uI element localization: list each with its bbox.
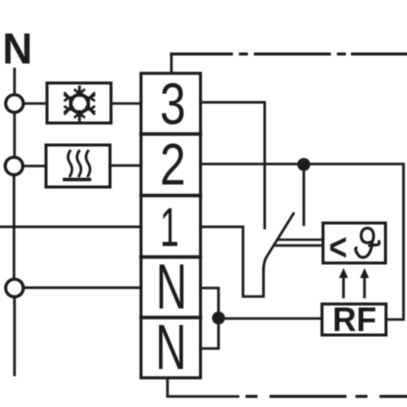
thermostat sensor box U1 <box>323 223 386 263</box>
junction dot on terminal 2 wire <box>297 158 310 171</box>
cooling load box <box>47 83 111 123</box>
terminal node circle (to heating contactor) <box>5 157 23 175</box>
wire: neutral rail vertical segment below N <box>13 69 16 94</box>
switch lever <box>264 214 294 270</box>
svg-text:1: 1 <box>160 197 179 258</box>
terminal cell 3 <box>141 72 201 137</box>
wire: terminal 3 up to enclosure boundary <box>170 54 173 73</box>
mechanical linkage (double line) from lever to thermostat <box>279 238 324 240</box>
svg-text:RF: RF <box>333 302 377 340</box>
heating (heat waves) symbol <box>65 151 91 180</box>
svg-text:N: N <box>3 24 33 73</box>
wire: neutral rail bottom segment <box>13 297 16 375</box>
junction dot on N jumper <box>212 312 225 325</box>
enclosure boundary (top, dash-dot) <box>171 53 407 56</box>
heating load box <box>46 145 110 187</box>
wire: terminal 1 to switch pivot <box>201 227 264 297</box>
wire: heating box to terminal 2 <box>110 164 141 167</box>
terminal cell 2 <box>141 133 201 198</box>
wire: circle 1 to cooling load box <box>24 102 48 105</box>
wire: N terminals jumper bracket <box>201 288 219 349</box>
wire: N jumper to RF module <box>219 317 323 320</box>
cooling (snowflake) symbol <box>65 87 94 120</box>
terminal cell N (first) <box>141 251 201 323</box>
terminal block outline <box>141 73 201 378</box>
svg-text:N: N <box>156 311 187 383</box>
enclosure boundary (bottom, dash-dot) <box>247 395 407 398</box>
wire: terminal 3 to switch contact A <box>201 102 265 228</box>
RF receiver module box <box>322 304 386 335</box>
wire: neutral rail between circle 2 and circle 3 <box>13 175 16 279</box>
wire: terminal 2 to junction and right rail <box>201 164 404 320</box>
svg-text:2: 2 <box>160 133 186 198</box>
wire: cooling box to terminal 3 <box>111 102 141 105</box>
signal arrow (left) from RF to thermostat <box>339 268 348 297</box>
svg-text:3: 3 <box>160 72 186 137</box>
wire: neutral rail between circle 1 and circle 2 <box>13 113 16 158</box>
wire: circle 3 to terminal N <box>25 286 142 289</box>
wire: circle 2 to heating load box <box>23 165 46 168</box>
wire: N terminal block bottom to enclosure edge <box>168 378 239 396</box>
wire: junction dot down to switch contact B <box>302 165 305 225</box>
terminal cell 1 <box>141 197 201 258</box>
signal arrow (right) from RF to thermostat <box>360 268 369 297</box>
terminal node circle (to cooling contactor) <box>6 95 24 113</box>
svg-text:<: < <box>329 227 347 269</box>
terminal node circle (to N terminal) <box>6 279 24 297</box>
wire: phase L feed to terminal 1 (crosses neutral rail) <box>0 226 141 229</box>
